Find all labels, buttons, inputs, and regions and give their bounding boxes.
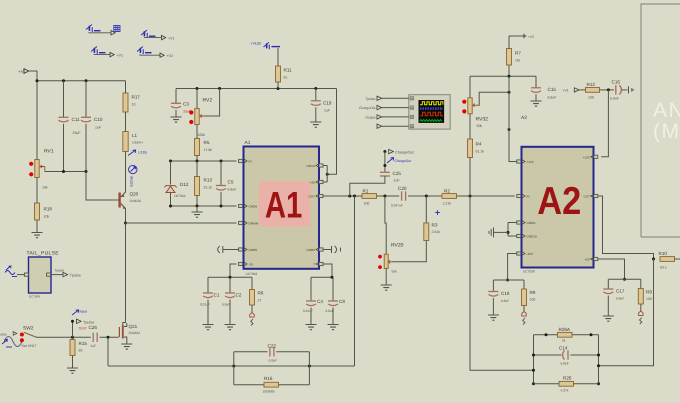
wire Q20 collector (125, 209, 127, 224)
svg-text:6.8uF: 6.8uF (222, 303, 230, 307)
pin +26uA A1 (319, 164, 323, 167)
wire IN bus (171, 160, 237, 162)
svg-text:5k: 5k (562, 339, 566, 343)
svg-text:91.1k: 91.1k (476, 150, 485, 154)
resistor R6 (250, 290, 255, 306)
terminal scope Tpulse (377, 96, 382, 100)
pin in TAIL_PULSE (24, 273, 28, 276)
potentiometer RV1 (35, 160, 39, 178)
op-amp block A1 (244, 147, 320, 269)
wire C18 bottom (492, 298, 494, 315)
junction bottom bus tap (107, 336, 110, 339)
svg-text:UC7098: UC7098 (523, 270, 535, 274)
capacitor C15 (531, 88, 541, 93)
blue probe arrow ChargeOut (387, 158, 394, 163)
svg-text:RV32: RV32 (476, 117, 489, 123)
resistor R11 (276, 66, 281, 82)
wire R9 bottom (640, 304, 642, 311)
svg-text:+13V: +13V (583, 155, 591, 159)
wire C1 C2 R6 bus (208, 276, 252, 278)
scope trace green (420, 120, 442, 122)
junctions OUT bus (348, 195, 471, 198)
svg-text:63.1: 63.1 (660, 265, 667, 269)
junction Tpulse tap (71, 320, 74, 323)
svg-text:1N750A: 1N750A (174, 194, 186, 198)
svg-text:+V2: +V2 (167, 54, 174, 58)
svg-text:C17: C17 (616, 289, 625, 294)
resistor R26 (559, 381, 574, 386)
pin -26 A1 (239, 262, 243, 265)
wire C17 top (607, 279, 609, 289)
pin IN A2 (517, 194, 521, 197)
wire pin 7 down (323, 264, 332, 277)
svg-text:D: D (411, 125, 413, 128)
svg-text:GNDA: GNDA (527, 221, 537, 225)
svg-text:C20: C20 (398, 186, 407, 191)
wire R5 to IN bus (196, 156, 198, 162)
svg-text:R26A: R26A (559, 327, 571, 332)
svg-text:IN: IN (527, 195, 530, 199)
svg-text:0.047uF: 0.047uF (391, 204, 403, 208)
resistor R8 (522, 289, 527, 306)
svg-text:GND9: GND9 (306, 248, 315, 252)
svg-text:AN: AN (653, 99, 680, 122)
svg-text:R16: R16 (264, 376, 273, 381)
svg-text:C25: C25 (393, 171, 402, 176)
wire C22 row (234, 351, 310, 353)
svg-text:90: 90 (79, 349, 83, 353)
wire C10 top (85, 81, 87, 118)
svg-text:6.8uF: 6.8uF (616, 297, 624, 301)
wire C5 top (220, 161, 222, 186)
wire R7 bottom (508, 65, 510, 76)
svg-text:1uF: 1uF (95, 126, 101, 130)
wire network right rail (598, 335, 600, 384)
svg-text:RV1: RV1 (44, 149, 54, 155)
wire GNDA (508, 222, 517, 224)
wire C14 row (534, 354, 599, 356)
capacitor C20 (399, 191, 408, 201)
wire bus to RV20 (385, 196, 386, 254)
junction -26V bus (506, 279, 509, 282)
pin +13V A2 (594, 155, 598, 158)
svg-text:R6: R6 (258, 291, 264, 296)
wire C10 bottom (85, 124, 87, 172)
wire feedback vertical (354, 196, 356, 366)
wire generator to TAIL_PULSE (17, 274, 24, 276)
svg-text:100k: 100k (198, 133, 206, 137)
pin out TAIL_PULSE (47, 273, 51, 276)
wire C16 out (622, 89, 628, 91)
wire R13 bottom (196, 196, 198, 207)
wire C4 C8 bus (311, 276, 333, 278)
svg-text:C1: C1 (214, 293, 220, 298)
svg-text:R2: R2 (444, 189, 450, 194)
wire B3 (94, 53, 110, 56)
svg-text:SW-SPDT: SW-SPDT (22, 344, 37, 348)
pin GND9 A1 (319, 248, 323, 251)
wire C1 bottom (207, 300, 209, 325)
RV32 contact dots (462, 100, 466, 114)
wire R7 top (508, 36, 510, 49)
svg-text:+V1: +V1 (563, 89, 569, 93)
signal ground R6 (250, 313, 254, 326)
potentiometer RV32 (468, 98, 472, 114)
svg-text:C10: C10 (94, 117, 103, 122)
svg-text:C22: C22 (268, 344, 277, 349)
svg-text:RV20: RV20 (391, 243, 404, 249)
ground R15 (67, 368, 78, 373)
svg-text:Output: Output (365, 115, 375, 119)
terminal +V1 right (574, 88, 579, 92)
wire to A2 network (470, 196, 534, 370)
junction +5V bus (623, 278, 626, 281)
wire C3 to ground (175, 110, 177, 117)
ground C4 (306, 325, 317, 330)
svg-text:R10: R10 (659, 251, 668, 256)
svg-text:+V2: +V2 (528, 35, 534, 39)
pin DRAIN A1 (239, 221, 243, 224)
resistor R18 (35, 203, 40, 220)
svg-text:R3: R3 (432, 223, 438, 228)
wire C2 bottom (229, 300, 231, 325)
svg-text:TAIL_PULSE: TAIL_PULSE (27, 251, 60, 257)
ground C1 (203, 325, 214, 330)
svg-text:2N4392: 2N4392 (129, 331, 141, 335)
wire ground stem (196, 206, 198, 212)
battery symbol B4 (137, 47, 152, 55)
wire terminal to R12 (579, 89, 586, 91)
wire C15 to ground (535, 94, 537, 101)
pin GND10 A2 (517, 234, 521, 237)
svg-text:A2: A2 (521, 115, 527, 121)
junctions top bus (36, 79, 88, 82)
svg-text:C19: C19 (323, 100, 332, 105)
generator glyph TAIL_PULSE (5, 266, 17, 277)
svg-text:6.8uF: 6.8uF (326, 309, 334, 313)
svg-text:OUT: OUT (308, 195, 315, 199)
pin B scope (410, 106, 413, 109)
RV1 contact dots (29, 162, 33, 177)
transistor Q21 (119, 323, 127, 342)
RV2 contact dots (189, 110, 193, 124)
wire TAIL_PULSE out (51, 274, 63, 276)
wire supply to A2 +12V (509, 76, 517, 161)
terminal Tpulse tap (77, 319, 82, 323)
terminal scope D (377, 124, 382, 128)
svg-text:R12: R12 (587, 82, 596, 87)
RV20 contact dots (378, 255, 382, 269)
battery symbol B2 (141, 30, 156, 38)
svg-text:D12: D12 (180, 182, 189, 187)
wire R26 row (534, 383, 599, 385)
svg-text:1nF: 1nF (394, 179, 400, 183)
battery symbol B5 (264, 42, 281, 49)
wire R7 to +V2 (509, 35, 524, 37)
svg-text:C2: C2 (236, 293, 242, 298)
capacitor C19 (311, 101, 321, 106)
wire ChargeOut to C25 (384, 152, 386, 172)
svg-text:-26V: -26V (527, 252, 534, 256)
scope trace yellow (420, 102, 443, 105)
junctions network (532, 354, 600, 386)
svg-text:33uF: 33uF (73, 131, 81, 135)
svg-text:IB(Q20): IB(Q20) (130, 176, 134, 187)
wire RV2 wiper to bus (205, 89, 220, 117)
svg-text:R11: R11 (284, 68, 293, 73)
junctions ground bus (169, 205, 223, 208)
svg-text:R7: R7 (515, 51, 521, 56)
wire R11 to bus (277, 82, 279, 89)
arrow B3 (110, 52, 114, 56)
wire B1 (89, 31, 111, 34)
capacitor C2 (225, 293, 235, 298)
wire RV20 to ground (385, 268, 387, 285)
svg-text:7: 7 (313, 263, 315, 267)
svg-text:GND10: GND10 (527, 235, 538, 239)
oscilloscope (409, 95, 450, 129)
svg-text:C15: C15 (548, 87, 557, 92)
wire C2 top (229, 277, 231, 293)
terminal ChargeOut (389, 149, 394, 153)
svg-text:ChargeOut: ChargeOut (395, 151, 415, 155)
battery symbol B1 (86, 25, 101, 33)
svg-text:ChargeOut: ChargeOut (359, 106, 376, 110)
svg-text:17.8k: 17.8k (204, 148, 213, 152)
resistor R13 (195, 177, 200, 196)
svg-text:L/1D5: L/1D5 (138, 151, 147, 155)
svg-text:L1: L1 (132, 133, 138, 138)
svg-text:C11: C11 (72, 117, 81, 122)
capacitor C22 (268, 347, 277, 357)
wire top bus (37, 80, 126, 82)
title block border (641, 4, 680, 237)
pin A scope (410, 97, 413, 100)
wire DRAIN net (126, 222, 237, 224)
svg-text:22.1k: 22.1k (204, 186, 213, 190)
capacitor at GND5 (218, 246, 239, 253)
resistor R16 (264, 382, 279, 387)
wire RV32 to R4 (469, 114, 471, 139)
wire R9 top (640, 279, 642, 288)
svg-text:10k: 10k (44, 215, 50, 219)
svg-text:1M: 1M (515, 59, 520, 63)
wire to R11 (277, 48, 279, 66)
junctions wiper bus (62, 170, 88, 173)
wire mid top bus (176, 88, 337, 90)
pin 7 A1 (319, 262, 323, 265)
svg-text:A1: A1 (265, 185, 303, 226)
wire RV20 wiper to R3 (393, 241, 427, 262)
svg-text:DC7006: DC7006 (29, 295, 40, 299)
transistor Q20 (118, 191, 125, 209)
svg-text:0.01uF: 0.01uF (200, 303, 210, 307)
wire D12 to ground bus (170, 193, 172, 207)
svg-text:100: 100 (530, 298, 536, 302)
terminal scope ChargeOut (377, 105, 382, 109)
ground A1 input (192, 212, 203, 217)
svg-text:6.8uF: 6.8uF (610, 97, 619, 101)
ground R18 (32, 233, 43, 238)
terminal arrow SW2 (13, 332, 17, 336)
svg-text:6.8uF: 6.8uF (501, 299, 509, 303)
wire C19 to ground (315, 107, 317, 122)
capacitor C5 (216, 186, 226, 191)
svg-text:R17: R17 (132, 95, 141, 100)
blue probe cross (435, 210, 440, 215)
junction Q20 collector (124, 222, 127, 225)
op-amp block A2 (522, 147, 594, 268)
wire bottom bus (108, 365, 355, 367)
generator glyph SW2 (4, 337, 22, 347)
signal ground R8 (522, 312, 526, 325)
svg-text:Tpulse: Tpulse (83, 320, 94, 324)
ground RV20 (381, 285, 392, 290)
pin +26 A1 (319, 180, 323, 183)
wire bus to R3 (425, 196, 427, 223)
wire R10 to network (599, 259, 654, 366)
svg-text:27: 27 (258, 299, 262, 303)
capacitor C17 (603, 289, 613, 294)
junction R15 (71, 336, 74, 339)
svg-text:C3: C3 (183, 101, 189, 106)
wire C8 top (332, 277, 334, 301)
svg-text:91: 91 (284, 76, 288, 80)
current probe annotation (128, 150, 136, 156)
svg-text:+26uA: +26uA (306, 164, 316, 168)
svg-text:R8: R8 (530, 290, 536, 295)
svg-text:R9: R9 (646, 290, 652, 295)
svg-text:R18: R18 (44, 207, 53, 212)
ground C17 (603, 316, 614, 321)
resistor R5 (195, 139, 200, 156)
resistor R1 (362, 194, 377, 199)
wire B4 (140, 54, 160, 55)
svg-text:Input: Input (80, 310, 88, 314)
pin GND8 A1 (239, 204, 243, 207)
pin OUT A2 (594, 194, 598, 197)
svg-text:SW2: SW2 (23, 326, 34, 332)
ground C18 (488, 315, 499, 320)
wire R26A row (534, 334, 599, 336)
svg-text:R15: R15 (79, 341, 88, 346)
junctions IN bus (169, 160, 223, 163)
wire RV1 to R18 (36, 178, 38, 204)
wire R16 row (234, 384, 310, 386)
svg-text:TEST: TEST (79, 327, 87, 331)
wire ground bus GND8 (171, 205, 237, 207)
junctions supply column (508, 75, 511, 131)
terminal Tpulse out (63, 272, 68, 276)
ground C15 (531, 101, 542, 106)
svg-text:R13: R13 (204, 178, 213, 183)
wire C4 top (310, 277, 312, 301)
svg-text:+V1: +V1 (168, 36, 175, 40)
wire SW2 to C26 (37, 336, 92, 338)
capacitor C16 (616, 85, 622, 94)
svg-text:6.8pF: 6.8pF (561, 362, 569, 366)
wire bus to R17 (125, 81, 127, 93)
capacitor C1 (203, 293, 213, 298)
resistor R17 (123, 93, 128, 112)
junction pin7 bus (331, 276, 334, 279)
wire R4 to bus (469, 158, 471, 197)
junction A1 supply pins (326, 173, 329, 176)
svg-text:GND5: GND5 (249, 248, 258, 252)
resistor R7 (507, 49, 512, 66)
capacitor C4 (306, 301, 316, 306)
pin IN A1 (239, 159, 243, 162)
svg-text:+5V: +5V (584, 258, 591, 262)
terminal +V1 (24, 69, 29, 74)
wire R12 to C16 (600, 89, 615, 91)
junction -26 bus (229, 276, 232, 279)
svg-text:1uF: 1uF (91, 344, 97, 348)
wire to side ground (494, 231, 509, 233)
wire R15 to ground (72, 356, 74, 369)
svg-text:R4: R4 (476, 142, 482, 147)
wire scope input Tpulse (382, 97, 409, 99)
wire R17 to L1 (125, 112, 127, 132)
wire R8 top (523, 280, 525, 289)
svg-text:+12V: +12V (527, 160, 535, 164)
scope trace red (420, 112, 443, 116)
svg-text:10k: 10k (42, 186, 48, 190)
wire GND10 (508, 235, 517, 237)
terminal C16 end (629, 86, 635, 93)
ground Q21 (121, 344, 132, 349)
capacitor C3 (171, 103, 181, 108)
A1 highlight (259, 181, 311, 226)
svg-text:C18: C18 (501, 291, 510, 296)
wire RV2 to R5 (196, 125, 198, 139)
wire tap down (107, 337, 109, 366)
wire R8 bottom (523, 306, 525, 312)
arrow B1 (111, 31, 115, 35)
svg-text:6.8uF: 6.8uF (548, 96, 557, 100)
ground C19 (310, 122, 321, 127)
pin -26V A2 (517, 252, 521, 255)
pin D scope (410, 125, 413, 128)
svg-text:100: 100 (364, 202, 370, 206)
wire bus to RV2 (196, 89, 198, 109)
wire R18 to ground (36, 220, 38, 233)
svg-text:UC7003: UC7003 (246, 272, 258, 276)
pin +12V A2 (517, 160, 521, 163)
svg-text:Q20: Q20 (130, 192, 139, 197)
svg-text:+26: +26 (310, 181, 316, 185)
junction R12 C16 (607, 88, 610, 91)
wire R10 right (675, 258, 680, 260)
wire gnd tie (507, 223, 509, 237)
capacitor C11 (59, 117, 69, 122)
signal ground R9 (639, 311, 643, 324)
resistor R26A (558, 332, 573, 337)
svg-text:R1: R1 (363, 189, 369, 194)
svg-text:1.21k: 1.21k (443, 202, 452, 206)
svg-text:(M: (M (653, 120, 680, 143)
wire rail to RV32 (469, 76, 471, 98)
wire C4 bottom (310, 308, 312, 325)
svg-text:4.37k: 4.37k (561, 389, 569, 393)
wire C25 to OUT bus (350, 176, 385, 196)
svg-text:R5: R5 (204, 140, 210, 145)
wire to pin +26uA (323, 165, 327, 167)
wire bus to C19 (315, 89, 317, 101)
junction gnd tie (507, 231, 510, 234)
wire R6 top (251, 277, 253, 289)
svg-text:6.8pF: 6.8pF (269, 359, 277, 363)
